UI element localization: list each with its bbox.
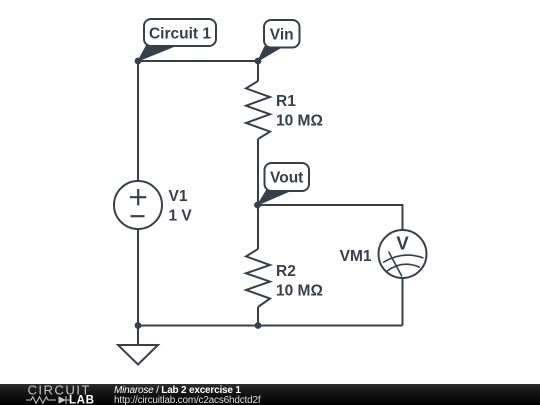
flag label Circuit 1 [138, 19, 216, 61]
svg-text:VM1: VM1 [340, 248, 372, 265]
svg-text:10 MΩ: 10 MΩ [276, 283, 323, 300]
node rail-mid junction dot [255, 322, 262, 329]
wire left upper (node A to V1 top) [137, 61, 139, 181]
wire Vout node to R2 top [257, 205, 259, 249]
voltage source V1 [114, 181, 162, 229]
wire bottom rail [138, 325, 403, 327]
resistor R2 [246, 249, 270, 307]
wire Vin node to R1 top [257, 61, 259, 81]
wire Vout node to voltmeter branch [258, 205, 403, 230]
node Vin junction dot [255, 58, 262, 65]
ground [118, 345, 158, 365]
footer bar [0, 384, 540, 405]
svg-text:10 MΩ: 10 MΩ [276, 113, 323, 130]
wire top (Circuit1 node to Vin node) [138, 60, 258, 62]
node Circuit 1 junction dot [135, 58, 142, 65]
wire ground stub [137, 326, 139, 346]
flag label Vin [258, 20, 300, 61]
svg-text:R2: R2 [276, 263, 296, 280]
svg-text:V: V [396, 233, 409, 254]
node rail-left junction dot [135, 322, 142, 329]
svg-text:V1: V1 [169, 188, 188, 205]
svg-text:Vin: Vin [270, 27, 294, 44]
svg-text:1 V: 1 V [169, 208, 193, 225]
svg-text:Circuit 1: Circuit 1 [149, 26, 211, 43]
svg-text:R1: R1 [276, 93, 296, 110]
svg-text:Vout: Vout [270, 170, 303, 187]
wire R2 bottom to rail [257, 307, 259, 326]
flag label Vout [258, 163, 310, 205]
CircuitLab logo [20, 384, 120, 405]
wire left lower (V1 bottom to ground rail) [137, 229, 139, 326]
svg-text:LAB: LAB [69, 394, 95, 405]
wire R1 bottom to Vout node [257, 139, 259, 205]
wire voltmeter bottom to rail [402, 278, 404, 326]
resistor R1 [246, 81, 270, 139]
voltmeter VM1 [379, 230, 427, 278]
node Vout junction dot [254, 202, 261, 209]
